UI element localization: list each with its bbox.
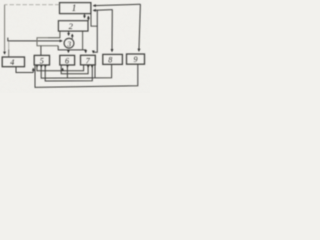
wire W1 vertical left bus into block 4 (4, 5, 6, 55)
arrowhead blob leaving block 6 bottom (66, 65, 69, 68)
svg-text:8: 8 (108, 56, 112, 65)
arrow circle 3 to block 2 (71, 34, 73, 39)
arrow block 2 to circle 3 (68, 31, 70, 35)
wire stub block 7 bottom-right onto bus R3 (94, 65, 96, 78)
arrowhead blobs leaving block 5 bottom (36, 65, 39, 68)
wire A2 into mixer circle 3 (left stub) (8, 38, 62, 41)
wire stub from block 2 bottom-right down to the y50 line (82, 31, 84, 50)
arrow block 1 to block 2 (84, 14, 86, 18)
block 2 (58, 21, 88, 31)
block 4 (2, 57, 24, 67)
arrow into block 1 right upper (92, 5, 95, 7)
arrow bus L1 up into block 5 (32, 68, 34, 72)
svg-text:2: 2 (69, 21, 74, 31)
block 7 (81, 55, 96, 65)
svg-text:1: 1 (72, 3, 77, 13)
block 5 (34, 55, 49, 65)
wire stub block 4 bottom to bus L1 (16, 67, 33, 73)
svg-text:6: 6 (65, 56, 69, 65)
arrowhead blobs leaving block 7 bottom (87, 65, 90, 68)
wire bus R1 from block 5 to block 7 (37, 65, 84, 71)
block 9 (127, 54, 145, 64)
block 8 (103, 54, 123, 64)
block 6 (60, 55, 75, 65)
wire W1 feedback from block 1 left side down to block 4 (faint top run) (5, 4, 60, 6)
wire yL vertical down into block 8 (111, 9, 113, 51)
arrow R1 up into block 6 (62, 68, 64, 71)
wire P1 from block 2 bottom-left stepping down to blocks 6 and 7 (48, 31, 60, 38)
wire yL from right loop into block 1 (lower) (93, 9, 112, 12)
wire bus R3 from block 5 to block 8 (41, 65, 111, 78)
wire stub block 6 onto bus R3 (66, 65, 68, 78)
wire bus L6 block 9 to block 5 (35, 65, 138, 88)
wire stub from block 1 bottom right to x97 (91, 14, 97, 27)
svg-text:3: 3 (66, 39, 71, 48)
wire yU from right loop into block 1 (upper) (94, 4, 140, 5)
branch into block 5 top (40, 46, 42, 56)
arrow into circle 3 left (60, 40, 63, 42)
svg-text:5: 5 (40, 56, 44, 65)
wire branch from A2 corner down into block 4 top (8, 42, 10, 50)
wire bus R4 from block 5 to block 7 (45, 65, 92, 81)
circle 3 (64, 38, 74, 48)
branch arrow into block 6 top (67, 50, 69, 53)
svg-text:9: 9 (134, 55, 138, 64)
block 1 (60, 3, 91, 14)
arrow block 2 to block 1 (87, 16, 89, 20)
wire bus R2 from block 6 to block 7 (61, 65, 88, 74)
svg-text:4: 4 (10, 58, 14, 67)
wire yU vertical down into block 9 (139, 4, 141, 51)
wire branch x97 down to block 7 top right (93, 10, 97, 53)
